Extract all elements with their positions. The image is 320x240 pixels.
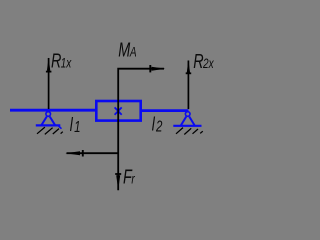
wire: beam left segment (10, 109, 96, 112)
force arrow Fr (down) (115, 174, 121, 190)
label MA (118, 38, 136, 61)
svg-text:l2: l2 (152, 113, 163, 135)
label l2 (span right) (152, 113, 163, 135)
pin support 1 (left) (36, 112, 62, 129)
label R1x (51, 49, 72, 72)
gear center cross mark (115, 107, 122, 114)
wire: beam right segment (140, 109, 189, 112)
force arrow pointing left (bottom branch) (65, 150, 118, 157)
label R2x (193, 50, 214, 73)
moment arrow MA (L-shaped, pointing right) (118, 65, 165, 101)
ground hatching of support 2 (176, 128, 203, 135)
ground hatching of support 1 (37, 127, 63, 134)
svg-text:l1: l1 (70, 114, 81, 136)
force line through gear centre (vertical) (117, 101, 119, 191)
reaction arrow R2x (up) (186, 60, 192, 109)
gear block (rectangle on shaft) (96, 101, 140, 121)
pin support 2 (right) (173, 112, 201, 126)
label l1 (span left) (70, 114, 81, 136)
label Fr (123, 165, 136, 188)
reaction arrow R1x (up) (46, 58, 52, 110)
